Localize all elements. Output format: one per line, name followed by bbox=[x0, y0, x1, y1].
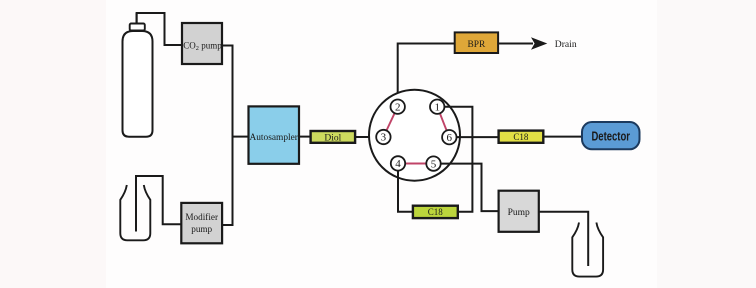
wire port 4 down to bottom C18 bbox=[398, 171, 413, 212]
port 2 bbox=[391, 100, 405, 114]
svg-text:5: 5 bbox=[431, 158, 437, 170]
valve rotor connection 2-3 bbox=[387, 113, 395, 130]
port 4 bbox=[391, 156, 405, 170]
left solvent bottle bbox=[120, 185, 150, 240]
wire port 5 to Pump bbox=[441, 164, 499, 212]
tube from bottle to Modifier pump bbox=[136, 176, 181, 232]
svg-text:C18: C18 bbox=[513, 132, 529, 142]
Detector bbox=[582, 122, 640, 149]
svg-text:4: 4 bbox=[395, 158, 401, 170]
svg-text:pump: pump bbox=[191, 224, 212, 234]
svg-text:6: 6 bbox=[447, 132, 453, 144]
valve rotor connection 4-5 bbox=[405, 163, 426, 165]
wire valve port 2 to BPR bbox=[398, 44, 455, 94]
port 1 bbox=[430, 100, 444, 114]
svg-text:1: 1 bbox=[434, 101, 440, 113]
right collection bottle bbox=[572, 223, 603, 277]
CO2 pump bbox=[182, 23, 222, 64]
svg-text:3: 3 bbox=[381, 132, 387, 144]
valve body circle bbox=[369, 90, 460, 181]
valve rotor connection 1-6 bbox=[440, 113, 447, 130]
Diol column bbox=[311, 131, 356, 144]
bottom C18 column bbox=[413, 206, 458, 218]
wire Pump to right bottle bbox=[539, 212, 588, 266]
svg-text:Drain: Drain bbox=[555, 39, 577, 50]
CO2 cylinder bbox=[123, 24, 153, 137]
wire Autosampler to Diol bbox=[299, 136, 311, 138]
background tint right strip bbox=[657, 0, 756, 288]
svg-text:Diol: Diol bbox=[324, 134, 341, 144]
port 6 bbox=[442, 130, 456, 144]
wire C18 to Detector bbox=[543, 136, 582, 138]
wire port 1 around to bottom C18 bbox=[444, 107, 472, 212]
Autosampler bbox=[249, 106, 300, 163]
svg-text:2: 2 bbox=[395, 101, 401, 113]
wire cylinder to CO2 pump bbox=[137, 13, 182, 45]
Modifier pump bbox=[181, 203, 222, 243]
background tint left strip bbox=[0, 0, 106, 288]
wire junction to Autosampler bbox=[233, 136, 249, 138]
port 3 bbox=[376, 130, 390, 144]
svg-text:Modifier: Modifier bbox=[185, 212, 218, 222]
svg-text:Autosampler: Autosampler bbox=[249, 133, 298, 143]
BPR bbox=[455, 32, 498, 53]
svg-text:BPR: BPR bbox=[468, 40, 486, 50]
svg-text:Pump: Pump bbox=[508, 208, 530, 218]
wire CO2 pump to junction down to Modifier pump bbox=[222, 46, 233, 226]
Pump bbox=[499, 191, 539, 232]
port 5 bbox=[426, 156, 440, 170]
right C18 column bbox=[499, 131, 544, 143]
svg-text:C18: C18 bbox=[428, 207, 444, 217]
wire segment cap stub bbox=[136, 13, 138, 24]
wire port 6 to right C18 bbox=[456, 136, 498, 138]
svg-text:Detector: Detector bbox=[591, 128, 630, 143]
wire BPR to drain with arrowhead bbox=[498, 43, 533, 45]
wire Diol to valve port 3 bbox=[355, 136, 376, 138]
